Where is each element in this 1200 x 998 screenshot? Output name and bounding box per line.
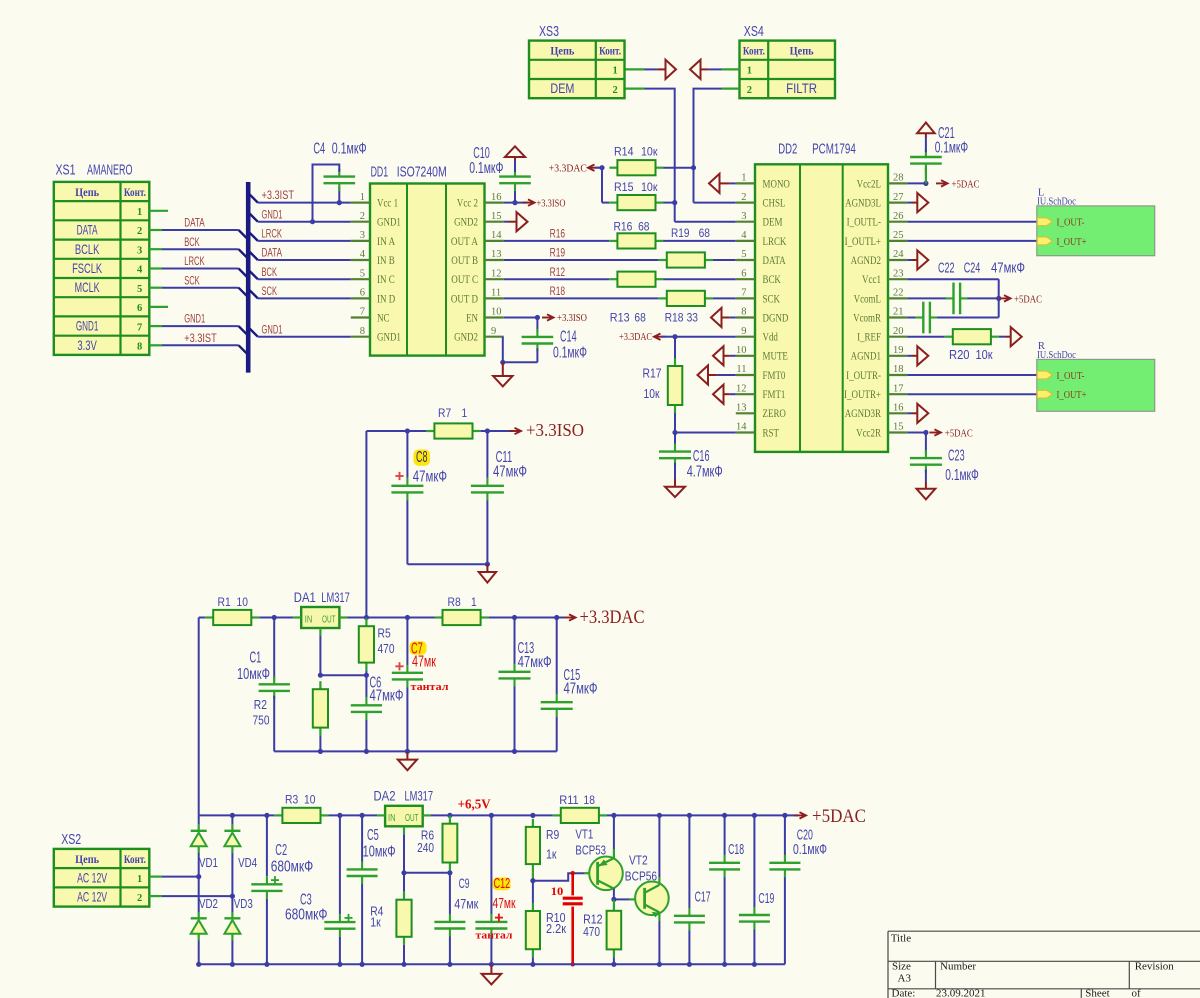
svg-text:+3.3ISO: +3.3ISO xyxy=(557,313,587,324)
svg-text:DA1: DA1 xyxy=(294,590,316,605)
svg-text:C22: C22 xyxy=(938,260,955,277)
svg-text:10: 10 xyxy=(304,793,316,807)
svg-text:1: 1 xyxy=(360,192,365,203)
svg-text:of: of xyxy=(1132,988,1142,998)
svg-text:18: 18 xyxy=(584,793,596,807)
svg-text:750: 750 xyxy=(253,714,270,728)
svg-text:0.1мкФ: 0.1мкФ xyxy=(332,141,367,158)
svg-text:FSCLK: FSCLK xyxy=(72,260,102,276)
svg-text:7: 7 xyxy=(360,307,365,318)
svg-text:2: 2 xyxy=(360,211,365,222)
svg-text:26: 26 xyxy=(893,211,904,222)
svg-text:C19: C19 xyxy=(758,890,774,907)
svg-text:9: 9 xyxy=(741,326,746,337)
svg-text:47мк: 47мк xyxy=(454,895,479,911)
svg-text:+3.3ISO: +3.3ISO xyxy=(526,420,584,440)
svg-text:I_OUTR-: I_OUTR- xyxy=(846,370,881,382)
svg-text:GND2: GND2 xyxy=(454,217,478,229)
svg-text:4: 4 xyxy=(360,249,366,260)
svg-text:VT1: VT1 xyxy=(575,827,593,841)
svg-text:SCK: SCK xyxy=(184,275,200,287)
svg-text:AGND3L: AGND3L xyxy=(845,198,881,210)
svg-text:13: 13 xyxy=(736,403,747,414)
svg-text:8: 8 xyxy=(741,307,746,318)
svg-text:C9: C9 xyxy=(459,875,470,891)
svg-text:+3.3IST: +3.3IST xyxy=(262,190,295,202)
svg-text:Vcc 2: Vcc 2 xyxy=(457,198,478,210)
svg-text:I_OUTR+: I_OUTR+ xyxy=(844,389,881,401)
svg-text:MONO: MONO xyxy=(763,178,790,190)
svg-text:10: 10 xyxy=(736,345,747,356)
svg-text:2: 2 xyxy=(137,226,142,237)
svg-text:12: 12 xyxy=(736,383,747,394)
svg-text:0.1мкФ: 0.1мкФ xyxy=(553,345,587,362)
svg-text:7: 7 xyxy=(137,322,142,333)
svg-text:SCK: SCK xyxy=(763,293,781,305)
svg-text:тантал: тантал xyxy=(411,682,449,693)
svg-text:10к: 10к xyxy=(641,182,658,194)
svg-text:C24: C24 xyxy=(964,260,981,277)
svg-text:OUT B: OUT B xyxy=(451,255,478,267)
svg-text:+3.3IST: +3.3IST xyxy=(184,333,217,345)
svg-text:Vdd: Vdd xyxy=(763,332,779,344)
svg-text:47мкФ: 47мкФ xyxy=(370,688,404,705)
svg-text:10: 10 xyxy=(237,595,249,609)
svg-text:LM317: LM317 xyxy=(321,590,350,605)
svg-text:IN A: IN A xyxy=(377,236,396,248)
svg-text:Цепь: Цепь xyxy=(75,852,100,866)
svg-text:AGND2: AGND2 xyxy=(851,255,882,267)
svg-text:25: 25 xyxy=(893,230,904,241)
svg-text:DA2: DA2 xyxy=(374,789,396,804)
svg-text:68: 68 xyxy=(638,222,649,234)
svg-text:IN B: IN B xyxy=(377,255,395,267)
svg-text:Цепь: Цепь xyxy=(550,44,575,58)
svg-text:28: 28 xyxy=(893,173,904,184)
svg-text:C23: C23 xyxy=(948,448,965,465)
svg-text:R14: R14 xyxy=(614,147,634,159)
svg-text:+5DAC: +5DAC xyxy=(1014,294,1042,305)
svg-text:47мкФ: 47мкФ xyxy=(518,654,552,671)
svg-text:2.2к: 2.2к xyxy=(546,922,566,936)
svg-text:6: 6 xyxy=(741,268,746,279)
svg-text:GND1: GND1 xyxy=(184,314,205,326)
svg-text:1: 1 xyxy=(137,874,142,885)
svg-text:Конт.: Конт. xyxy=(743,44,765,58)
svg-text:2: 2 xyxy=(747,85,752,96)
svg-text:LRCK: LRCK xyxy=(763,236,787,248)
svg-text:DATA: DATA xyxy=(184,218,205,230)
svg-text:GND1: GND1 xyxy=(377,332,401,344)
svg-text:10мкФ: 10мкФ xyxy=(363,843,396,860)
svg-text:R18: R18 xyxy=(550,286,566,298)
svg-text:10: 10 xyxy=(551,886,564,898)
svg-text:I_OUT-: I_OUT- xyxy=(1057,217,1085,229)
svg-text:20: 20 xyxy=(893,326,904,337)
svg-text:Sheet: Sheet xyxy=(1085,988,1109,998)
svg-text:10к: 10к xyxy=(976,348,993,362)
svg-text:R2: R2 xyxy=(254,698,267,712)
svg-text:BCLK: BCLK xyxy=(75,241,100,257)
svg-text:BCK: BCK xyxy=(262,267,278,279)
svg-text:R8: R8 xyxy=(448,595,461,609)
svg-text:OUT: OUT xyxy=(405,813,419,824)
svg-text:33: 33 xyxy=(687,313,698,325)
svg-text:IN D: IN D xyxy=(377,293,395,305)
svg-text:AMANERO: AMANERO xyxy=(87,163,133,179)
svg-text:+3.3DAC: +3.3DAC xyxy=(549,164,587,175)
svg-text:15: 15 xyxy=(893,422,904,433)
svg-text:22: 22 xyxy=(893,288,904,299)
svg-text:14: 14 xyxy=(736,422,747,433)
svg-text:68: 68 xyxy=(699,228,710,240)
svg-text:18: 18 xyxy=(893,364,904,375)
svg-text:ZERO: ZERO xyxy=(763,408,786,420)
svg-text:XS2: XS2 xyxy=(61,832,81,848)
svg-text:DATA: DATA xyxy=(763,255,787,267)
svg-text:AC 12V: AC 12V xyxy=(77,869,107,885)
svg-text:17: 17 xyxy=(893,383,904,394)
svg-text:OUT C: OUT C xyxy=(451,274,478,286)
svg-text:14: 14 xyxy=(491,230,502,241)
svg-text:MCLK: MCLK xyxy=(75,279,100,295)
svg-text:VD1: VD1 xyxy=(199,856,218,870)
svg-text:Title: Title xyxy=(891,933,912,945)
svg-text:PCM1794: PCM1794 xyxy=(812,140,856,157)
svg-text:2: 2 xyxy=(137,893,142,904)
svg-text:OUT A: OUT A xyxy=(451,236,479,248)
svg-text:+5DAC: +5DAC xyxy=(952,179,980,190)
svg-text:1: 1 xyxy=(137,207,142,218)
svg-text:VD2: VD2 xyxy=(199,897,218,911)
svg-text:VT2: VT2 xyxy=(629,854,648,868)
svg-text:R1: R1 xyxy=(218,595,231,609)
svg-text:IN: IN xyxy=(388,813,396,824)
svg-text:23.09.2021: 23.09.2021 xyxy=(936,988,986,998)
svg-text:BCK: BCK xyxy=(763,274,782,286)
svg-text:C18: C18 xyxy=(728,841,744,858)
svg-text:C16: C16 xyxy=(693,448,710,465)
svg-text:VcomR: VcomR xyxy=(853,312,881,324)
svg-text:LRCK: LRCK xyxy=(262,229,283,241)
svg-text:470: 470 xyxy=(378,642,395,656)
svg-text:6: 6 xyxy=(360,288,365,299)
svg-text:I_OUT-: I_OUT- xyxy=(1057,370,1085,382)
svg-text:47мкФ: 47мкФ xyxy=(413,468,447,485)
svg-text:+3.3ISO: +3.3ISO xyxy=(537,199,566,210)
svg-text:I_REF: I_REF xyxy=(857,332,881,344)
svg-text:47мк: 47мк xyxy=(493,895,516,912)
svg-text:GND1: GND1 xyxy=(377,217,401,229)
svg-text:XS1: XS1 xyxy=(56,163,76,179)
svg-text:IN: IN xyxy=(305,615,313,626)
svg-text:FMT0: FMT0 xyxy=(763,370,786,382)
svg-text:I_OUT+: I_OUT+ xyxy=(1057,236,1087,248)
svg-text:Цепь: Цепь xyxy=(790,44,815,58)
svg-text:11: 11 xyxy=(736,364,746,375)
svg-text:Date:: Date: xyxy=(892,988,916,998)
svg-text:I_OUTL+: I_OUTL+ xyxy=(845,236,881,248)
svg-text:0.1мкФ: 0.1мкФ xyxy=(793,841,827,858)
svg-text:C12: C12 xyxy=(494,875,511,892)
svg-text:I_OUT+: I_OUT+ xyxy=(1057,389,1087,401)
svg-text:R15: R15 xyxy=(614,182,634,194)
svg-text:3: 3 xyxy=(137,245,142,256)
svg-text:8: 8 xyxy=(137,342,142,353)
svg-text:R18: R18 xyxy=(665,313,684,325)
svg-text:9: 9 xyxy=(491,326,496,337)
svg-text:10к: 10к xyxy=(641,147,658,159)
svg-text:Vcc1: Vcc1 xyxy=(862,274,881,286)
svg-text:Конт.: Конт. xyxy=(124,852,146,866)
svg-text:47мкФ: 47мкФ xyxy=(493,464,527,481)
svg-text:DD1: DD1 xyxy=(371,165,389,181)
svg-text:Vcc2L: Vcc2L xyxy=(857,178,881,190)
svg-text:0.1мкФ: 0.1мкФ xyxy=(469,160,503,177)
svg-text:R9: R9 xyxy=(546,828,559,842)
svg-text:RST: RST xyxy=(763,427,780,439)
svg-text:VcomL: VcomL xyxy=(854,293,881,305)
svg-text:16: 16 xyxy=(893,403,904,414)
svg-text:VD3: VD3 xyxy=(234,897,253,911)
svg-text:GND2: GND2 xyxy=(454,332,478,344)
svg-text:Vcc 1: Vcc 1 xyxy=(377,198,398,210)
svg-text:OUT: OUT xyxy=(322,615,336,626)
svg-text:C5: C5 xyxy=(367,827,379,844)
svg-text:XS4: XS4 xyxy=(744,24,764,40)
svg-text:5: 5 xyxy=(137,284,142,295)
svg-text:LRCK: LRCK xyxy=(184,256,205,268)
svg-text:R19: R19 xyxy=(550,248,566,260)
svg-text:IN C: IN C xyxy=(377,274,395,286)
svg-text:68: 68 xyxy=(634,313,645,325)
svg-text:0.1мкФ: 0.1мкФ xyxy=(945,467,979,484)
svg-text:3: 3 xyxy=(741,211,746,222)
svg-text:DATA: DATA xyxy=(77,222,98,238)
svg-text:SCK: SCK xyxy=(262,286,278,298)
svg-text:GND1: GND1 xyxy=(262,209,283,221)
svg-text:Revision: Revision xyxy=(1135,961,1175,973)
svg-text:2: 2 xyxy=(741,192,746,203)
svg-text:3: 3 xyxy=(360,230,365,241)
svg-text:240: 240 xyxy=(417,841,434,855)
svg-text:16: 16 xyxy=(491,192,502,203)
svg-text:Number: Number xyxy=(940,961,976,973)
svg-text:+6,5V: +6,5V xyxy=(458,796,491,811)
svg-text:1: 1 xyxy=(741,173,746,184)
svg-text:1: 1 xyxy=(471,595,477,609)
svg-text:1: 1 xyxy=(747,66,752,77)
svg-text:AC 12V: AC 12V xyxy=(77,889,107,905)
svg-text:AGND3R: AGND3R xyxy=(845,408,882,420)
svg-text:NC: NC xyxy=(377,312,390,324)
svg-text:A3: A3 xyxy=(898,973,912,985)
svg-text:DEM: DEM xyxy=(550,80,574,96)
svg-text:R3: R3 xyxy=(285,793,298,807)
svg-text:I_OUTL-: I_OUTL- xyxy=(847,217,882,229)
svg-text:0.1мкФ: 0.1мкФ xyxy=(935,140,969,157)
svg-text:680мкФ: 680мкФ xyxy=(271,858,314,875)
svg-text:R11: R11 xyxy=(559,793,579,807)
svg-text:Size: Size xyxy=(892,961,911,973)
svg-text:47мк: 47мк xyxy=(412,653,436,670)
svg-text:DEM: DEM xyxy=(763,217,783,229)
svg-text:12: 12 xyxy=(491,268,502,279)
svg-text:10мкФ: 10мкФ xyxy=(237,666,270,683)
svg-text:4.7мкФ: 4.7мкФ xyxy=(687,464,723,481)
svg-text:8: 8 xyxy=(360,326,365,337)
svg-text:GND1: GND1 xyxy=(262,324,283,336)
svg-text:3.3V: 3.3V xyxy=(77,337,97,353)
svg-text:10к: 10к xyxy=(644,387,660,401)
svg-text:7: 7 xyxy=(741,288,746,299)
svg-text:R16: R16 xyxy=(550,229,566,241)
svg-text:CHSL: CHSL xyxy=(763,198,786,210)
svg-text:1: 1 xyxy=(462,406,468,420)
svg-text:15: 15 xyxy=(491,211,502,222)
svg-text:11: 11 xyxy=(491,288,501,299)
svg-text:27: 27 xyxy=(893,192,904,203)
svg-text:21: 21 xyxy=(893,307,904,318)
svg-text:5: 5 xyxy=(360,268,365,279)
svg-text:Цепь: Цепь xyxy=(75,185,100,199)
svg-text:Конт.: Конт. xyxy=(124,185,146,199)
svg-text:MUTE: MUTE xyxy=(763,351,788,363)
svg-text:47мкФ: 47мкФ xyxy=(991,260,1025,277)
svg-text:R20: R20 xyxy=(949,348,970,362)
svg-text:2: 2 xyxy=(612,85,617,96)
svg-text:470: 470 xyxy=(583,925,600,939)
svg-text:VD4: VD4 xyxy=(238,856,257,870)
svg-text:DGND: DGND xyxy=(763,312,789,324)
svg-text:6: 6 xyxy=(137,303,142,314)
svg-text:OUT D: OUT D xyxy=(451,293,478,305)
svg-text:LM317: LM317 xyxy=(405,789,434,804)
svg-text:Конт.: Конт. xyxy=(599,44,621,58)
svg-text:680мкФ: 680мкФ xyxy=(285,907,328,924)
svg-text:GND1: GND1 xyxy=(76,318,99,334)
svg-text:AGND1: AGND1 xyxy=(851,351,882,363)
svg-text:+3.3DAC: +3.3DAC xyxy=(580,607,645,628)
svg-text:C14: C14 xyxy=(560,329,577,346)
svg-text:BCK: BCK xyxy=(184,237,200,249)
svg-text:+5DAC: +5DAC xyxy=(945,429,973,440)
svg-text:R12: R12 xyxy=(550,267,566,279)
svg-text:4: 4 xyxy=(137,265,143,276)
svg-text:R7: R7 xyxy=(438,406,451,420)
svg-text:FILTR: FILTR xyxy=(786,80,817,96)
svg-text:ISO7240M: ISO7240M xyxy=(397,165,447,181)
svg-text:4: 4 xyxy=(741,230,747,241)
svg-text:R19: R19 xyxy=(671,228,689,240)
svg-text:R13: R13 xyxy=(610,313,630,325)
svg-text:1: 1 xyxy=(612,66,617,77)
svg-text:C4: C4 xyxy=(313,141,325,158)
svg-text:DD2: DD2 xyxy=(778,140,797,157)
svg-text:C8: C8 xyxy=(416,449,428,466)
svg-text:5: 5 xyxy=(741,249,746,260)
svg-text:C2: C2 xyxy=(275,842,287,859)
svg-text:C17: C17 xyxy=(695,889,711,906)
svg-text:13: 13 xyxy=(491,249,502,260)
svg-text:BCP53: BCP53 xyxy=(575,844,606,858)
svg-text:24: 24 xyxy=(893,249,904,260)
svg-text:+3.3DAC: +3.3DAC xyxy=(619,332,652,343)
svg-text:19: 19 xyxy=(893,345,904,356)
svg-text:EN: EN xyxy=(466,312,478,324)
svg-text:C1: C1 xyxy=(250,650,262,667)
svg-text:R17: R17 xyxy=(643,367,662,381)
svg-text:FMT1: FMT1 xyxy=(763,389,786,401)
svg-text:BCP56: BCP56 xyxy=(625,870,657,884)
svg-text:R5: R5 xyxy=(378,627,391,641)
svg-text:тантал: тантал xyxy=(476,930,513,941)
svg-text:23: 23 xyxy=(893,268,904,279)
svg-text:DATA: DATA xyxy=(262,248,283,260)
svg-text:47мкФ: 47мкФ xyxy=(564,681,598,698)
svg-text:+5DAC: +5DAC xyxy=(812,806,866,827)
svg-text:1к: 1к xyxy=(370,916,381,930)
svg-text:10: 10 xyxy=(491,307,502,318)
svg-text:XS3: XS3 xyxy=(539,24,559,40)
svg-text:1к: 1к xyxy=(546,848,557,862)
svg-text:Vcc2R: Vcc2R xyxy=(856,427,881,439)
svg-text:R16: R16 xyxy=(614,222,633,234)
